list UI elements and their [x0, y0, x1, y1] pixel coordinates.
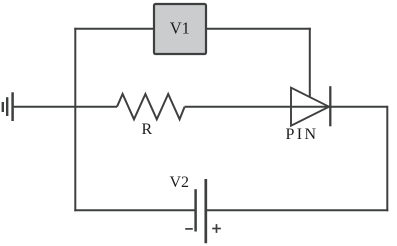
diode D1 (PIN) anode triangle — [291, 88, 329, 126]
svg-text:PIN: PIN — [286, 126, 319, 143]
battery V2 negative plate (short bar) — [194, 189, 197, 231]
diode D1 cathode bar — [329, 86, 331, 126]
wire left vertical (junction branch) — [74, 28, 76, 212]
wire diode to right corner — [329, 106, 387, 108]
wire top right (V1 to diode branch) — [206, 28, 311, 30]
label minus — [185, 228, 193, 230]
wire ground to resistor (main horizontal, left) — [13, 106, 117, 108]
wire vertical drop to diode anode — [309, 28, 311, 98]
battery V2 positive plate (tall bar) — [204, 179, 207, 243]
resistor R — [117, 94, 185, 119]
wire right vertical — [386, 106, 388, 212]
ground — [3, 92, 13, 121]
meter V1 — [154, 4, 206, 54]
svg-text:R: R — [141, 121, 152, 138]
wire top left (junction to V1) — [74, 28, 153, 30]
svg-text:V2: V2 — [170, 174, 190, 191]
wire bottom right (corner to battery +) — [206, 209, 388, 211]
wire resistor to diode — [185, 106, 330, 108]
wire bottom left (battery - to corner) — [74, 209, 195, 211]
svg-text:V1: V1 — [170, 18, 190, 37]
label plus — [212, 224, 221, 233]
